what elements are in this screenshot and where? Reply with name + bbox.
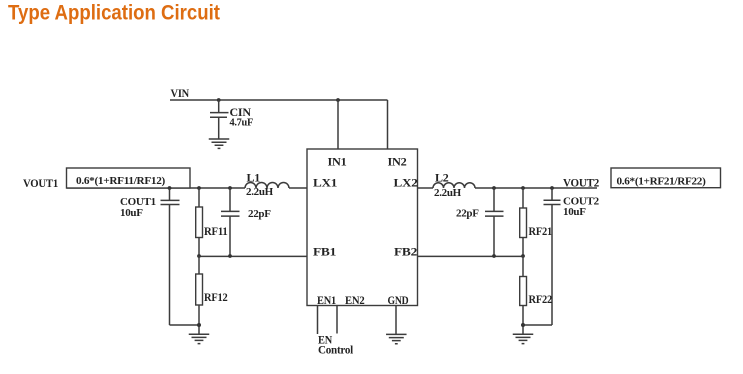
svg-text:Type Application Circuit: Type Application Circuit bbox=[8, 2, 220, 25]
formula box VOUT1 bbox=[67, 168, 191, 188]
wire EN2 bbox=[336, 306, 338, 334]
wire FB1 bbox=[199, 255, 307, 257]
junction dot C2 tap bbox=[492, 186, 496, 190]
svg-text:4.7uF: 4.7uF bbox=[230, 117, 254, 129]
junction dot C22pF-1 tap bbox=[228, 186, 232, 190]
svg-text:L2: L2 bbox=[435, 171, 449, 185]
svg-text:EN1: EN1 bbox=[317, 293, 336, 307]
svg-text:FB1: FB1 bbox=[313, 245, 336, 259]
capacitor CIN bbox=[210, 100, 229, 139]
wire VIN top rail bbox=[170, 99, 388, 101]
svg-text:GND: GND bbox=[388, 293, 409, 307]
svg-text:Control: Control bbox=[318, 343, 354, 357]
wire L1 to LX1 bbox=[289, 187, 307, 189]
svg-text:2.2uH: 2.2uH bbox=[434, 187, 462, 199]
svg-text:10uF: 10uF bbox=[120, 207, 143, 219]
svg-text:RF11: RF11 bbox=[204, 224, 228, 238]
svg-text:0.6*(1+RF21/RF22): 0.6*(1+RF21/RF22) bbox=[617, 176, 707, 188]
junction dot COUT1 tap bbox=[168, 186, 172, 190]
junction dot C2 bottom bbox=[492, 254, 496, 258]
formula box VOUT2 bbox=[611, 168, 721, 188]
svg-text:EN2: EN2 bbox=[345, 293, 365, 307]
wire IN1 branch bbox=[337, 100, 339, 149]
svg-text:RF21: RF21 bbox=[529, 224, 553, 238]
resistor RF11 bbox=[196, 188, 203, 256]
wire VOUT1 rail bbox=[67, 187, 246, 189]
junction dot RF11 tap bbox=[197, 186, 201, 190]
svg-text:0.6*(1+RF11/RF12): 0.6*(1+RF11/RF12) bbox=[76, 175, 166, 187]
inductor L1 bbox=[245, 183, 289, 188]
wire GND pin bbox=[395, 306, 397, 335]
capacitor C1 22pF bbox=[221, 188, 240, 256]
wire IN2 branch bbox=[387, 100, 389, 149]
svg-text:2.2uH: 2.2uH bbox=[246, 186, 274, 198]
svg-text:LX2: LX2 bbox=[394, 176, 418, 190]
junction dot RF21 tap bbox=[521, 186, 525, 190]
capacitor COUT1 bbox=[161, 188, 200, 325]
svg-text:10uF: 10uF bbox=[563, 206, 586, 218]
ground (CIN) bbox=[209, 139, 230, 148]
inductor L2 bbox=[433, 183, 475, 188]
svg-text:L1: L1 bbox=[247, 171, 261, 185]
svg-text:22pF: 22pF bbox=[456, 208, 479, 220]
ground (left) bbox=[189, 334, 210, 343]
wire EN1 bbox=[317, 306, 319, 335]
svg-text:FB2: FB2 bbox=[394, 245, 417, 259]
wire LX2 to L2 bbox=[418, 187, 434, 189]
wire VOUT2 rail bbox=[475, 187, 597, 189]
resistor RF22 bbox=[520, 256, 527, 334]
junction dot COUT2 tap bbox=[550, 186, 554, 190]
capacitor COUT2 bbox=[523, 188, 561, 325]
junction dot C1 bottom bbox=[228, 254, 232, 258]
junction dot RF21 bottom bbox=[521, 254, 525, 258]
svg-text:RF22: RF22 bbox=[529, 292, 553, 306]
junction dot IN1 branch bbox=[336, 98, 340, 102]
ground (right) bbox=[513, 334, 534, 343]
svg-text:RF12: RF12 bbox=[204, 290, 228, 304]
IC U1 dual-converter body bbox=[307, 149, 418, 306]
junction dot right ground bbox=[521, 323, 525, 327]
junction dot RF11 bottom bbox=[197, 254, 201, 258]
svg-text:LX1: LX1 bbox=[313, 176, 337, 190]
svg-text:VOUT1: VOUT1 bbox=[23, 176, 58, 190]
svg-text:22pF: 22pF bbox=[248, 208, 271, 220]
svg-text:VOUT2: VOUT2 bbox=[563, 176, 599, 190]
junction dot CIN tap bbox=[217, 98, 221, 102]
wire FB2 bbox=[418, 255, 524, 257]
svg-text:IN2: IN2 bbox=[388, 155, 407, 169]
junction dot left ground bbox=[197, 323, 201, 327]
svg-text:IN1: IN1 bbox=[328, 155, 347, 169]
ground (GND pin) bbox=[386, 334, 407, 343]
resistor RF12 bbox=[196, 256, 203, 334]
svg-text:VIN: VIN bbox=[171, 86, 190, 100]
resistor RF21 bbox=[520, 188, 527, 256]
capacitor C2 22pF bbox=[485, 188, 504, 256]
